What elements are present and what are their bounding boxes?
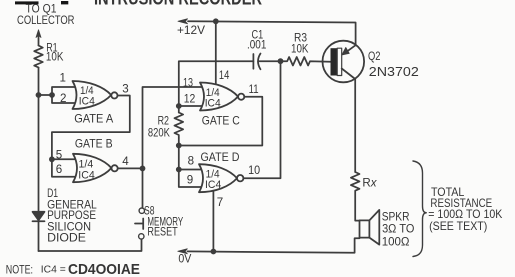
- svg-text:CD4OOIAE: CD4OOIAE: [68, 261, 140, 277]
- svg-text:INTRUSION RECORDER: INTRUSION RECORDER: [94, 0, 262, 8]
- wire: gate B output: [118, 167, 143, 169]
- NOR gate C (1/4 IC4, pins 13,12 in / 11 out): [200, 83, 238, 111]
- svg-text:10: 10: [248, 164, 260, 177]
- svg-text:11: 11: [249, 83, 259, 96]
- svg-text:1/4: 1/4: [79, 158, 94, 170]
- svg-text:6: 6: [56, 163, 62, 176]
- node: pin 12: [176, 103, 182, 109]
- diode D1: [33, 212, 45, 220]
- +12V rail: [188, 21, 356, 45]
- svg-text:2: 2: [60, 92, 66, 105]
- svg-text:SPKR: SPKR: [382, 210, 410, 223]
- svg-text:IC4: IC4: [205, 98, 221, 110]
- Q2 emitter with arrow: [347, 45, 356, 52]
- gates (drawn filled to mask wires): [73, 81, 245, 192]
- svg-text:IC4: IC4: [79, 96, 95, 108]
- switch S8 memory reset: [139, 208, 144, 213]
- wire: R2 top / C1 left: [179, 61, 254, 187]
- svg-text:100Ω: 100Ω: [382, 236, 410, 249]
- brace total resistance: [413, 161, 426, 257]
- wire: gate A output to gate B input: [52, 96, 130, 177]
- Q2 base bar: [331, 48, 338, 75]
- svg-text:IC4: IC4: [78, 170, 95, 182]
- svg-text:5: 5: [56, 148, 62, 161]
- svg-text:DIODE: DIODE: [47, 231, 86, 244]
- Q2 collector: [342, 69, 356, 173]
- wire: gate D pin 7 to 0V: [212, 192, 214, 252]
- NOR gate A (1/4 IC4, pins 1,2 in / 3 out): [73, 81, 112, 109]
- node: R1 / gate A input junction: [36, 92, 42, 98]
- 0V rail: [188, 238, 360, 253]
- node: gate B pin5 junction: [49, 156, 55, 162]
- svg-text:7: 7: [217, 196, 223, 209]
- svg-text:RESET: RESET: [147, 226, 177, 239]
- wire: junction to gate A input bracket: [39, 94, 53, 96]
- wire: left input vertical from arrow to diode: [38, 36, 40, 251]
- svg-text:COLLECTOR: COLLECTOR: [17, 14, 75, 27]
- wire: pin 14 drop to gate C: [215, 21, 217, 84]
- wire: gate A input bracket pins 1,2: [52, 87, 78, 103]
- svg-text:3Ω TO: 3Ω TO: [382, 223, 414, 236]
- svg-text:12: 12: [184, 93, 196, 106]
- resistor R3: [281, 57, 331, 66]
- svg-text:.001: .001: [247, 39, 266, 52]
- svg-text:GATE D: GATE D: [201, 151, 240, 164]
- transistor Q2 2N3702: [323, 41, 365, 83]
- wire: gate D out up to C1: [243, 61, 280, 178]
- NOR gate D (1/4 IC4, pins 8,9 in / 10 out): [199, 164, 237, 192]
- svg-text:3: 3: [122, 83, 128, 96]
- node: gate B out / S8 junction: [140, 166, 146, 172]
- svg-text:10K: 10K: [291, 43, 309, 56]
- svg-text:Q2: Q2: [368, 50, 381, 63]
- resistor Rx: [351, 172, 360, 221]
- capacitor C1: [252, 54, 254, 69]
- svg-text:14: 14: [219, 69, 230, 82]
- node: pin 8: [176, 167, 182, 173]
- svg-text:820K: 820K: [148, 126, 170, 139]
- svg-text:(SEE TEXT): (SEE TEXT): [429, 220, 487, 233]
- wire: bottom left to S8: [39, 239, 142, 251]
- resistor R2: [175, 113, 184, 139]
- svg-text:+12V: +12V: [177, 24, 205, 37]
- svg-text:GATE C: GATE C: [202, 115, 240, 128]
- NOR gate B (1/4 IC4, pins 5,6 in / 4 out): [73, 154, 111, 182]
- svg-text:GATE B: GATE B: [75, 138, 113, 151]
- title bar remnant (cut-off bold header): [15, 1, 68, 4]
- svg-text:9: 9: [187, 173, 193, 186]
- svg-text:IC4 =: IC4 =: [41, 265, 66, 276]
- resistor R1: [34, 46, 43, 68]
- node: C1 / R3 / gate D out: [278, 58, 284, 64]
- svg-text:Rx: Rx: [362, 177, 377, 190]
- svg-text:GATE A: GATE A: [74, 113, 113, 126]
- arrow to Q1 collector: [36, 30, 41, 38]
- svg-text:NOTE:: NOTE:: [6, 264, 33, 277]
- svg-text:13: 13: [183, 77, 193, 90]
- svg-text:2N3702: 2N3702: [369, 64, 419, 79]
- svg-text:4: 4: [122, 155, 129, 168]
- svg-text:8: 8: [188, 154, 194, 167]
- svg-text:IC4: IC4: [205, 179, 221, 191]
- svg-text:10K: 10K: [46, 51, 64, 64]
- wire: mid vertical gate C pin13 / gate B out / S8: [143, 87, 206, 208]
- speaker SPKR: [360, 220, 370, 237]
- svg-text:1: 1: [60, 72, 66, 85]
- wire: gate C out right-down-left: [179, 97, 262, 146]
- node: R2 bottom / gate C out: [176, 143, 182, 149]
- svg-text:0V: 0V: [178, 252, 191, 265]
